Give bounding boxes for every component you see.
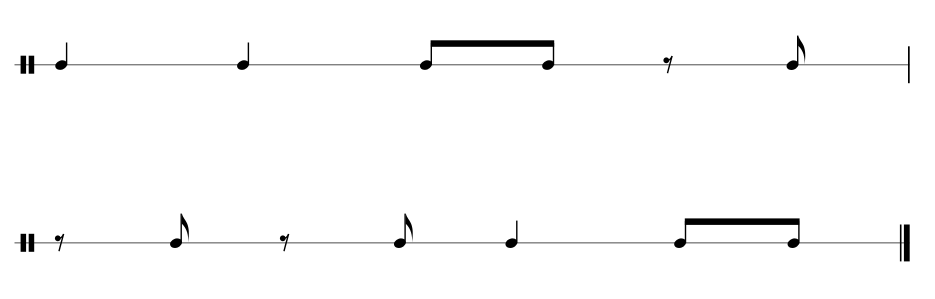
eighth rest line 1 [663, 56, 672, 73]
staff line 2 [15, 242, 910, 243]
quarter note 1 line 1 [54, 43, 69, 72]
barline end of line 1 [908, 46, 910, 83]
eighth rest 1 line 2 [55, 234, 64, 251]
beamed eighth pair line 1 [419, 40, 556, 71]
quarter note line 2 [504, 221, 519, 250]
final barline line 2 [900, 225, 910, 262]
beamed eighth pair line 2 [673, 218, 801, 249]
percussion clef line 2 [21, 234, 35, 252]
eighth rest 2 line 2 [280, 234, 289, 251]
flagged eighth note 1 line 2 [169, 214, 189, 250]
percussion clef line 1 [21, 56, 35, 74]
staff line 1 [15, 64, 910, 65]
flagged eighth note 2 line 2 [393, 214, 413, 250]
quarter note 2 line 1 [236, 43, 251, 72]
flagged eighth note line 1 [785, 36, 805, 72]
